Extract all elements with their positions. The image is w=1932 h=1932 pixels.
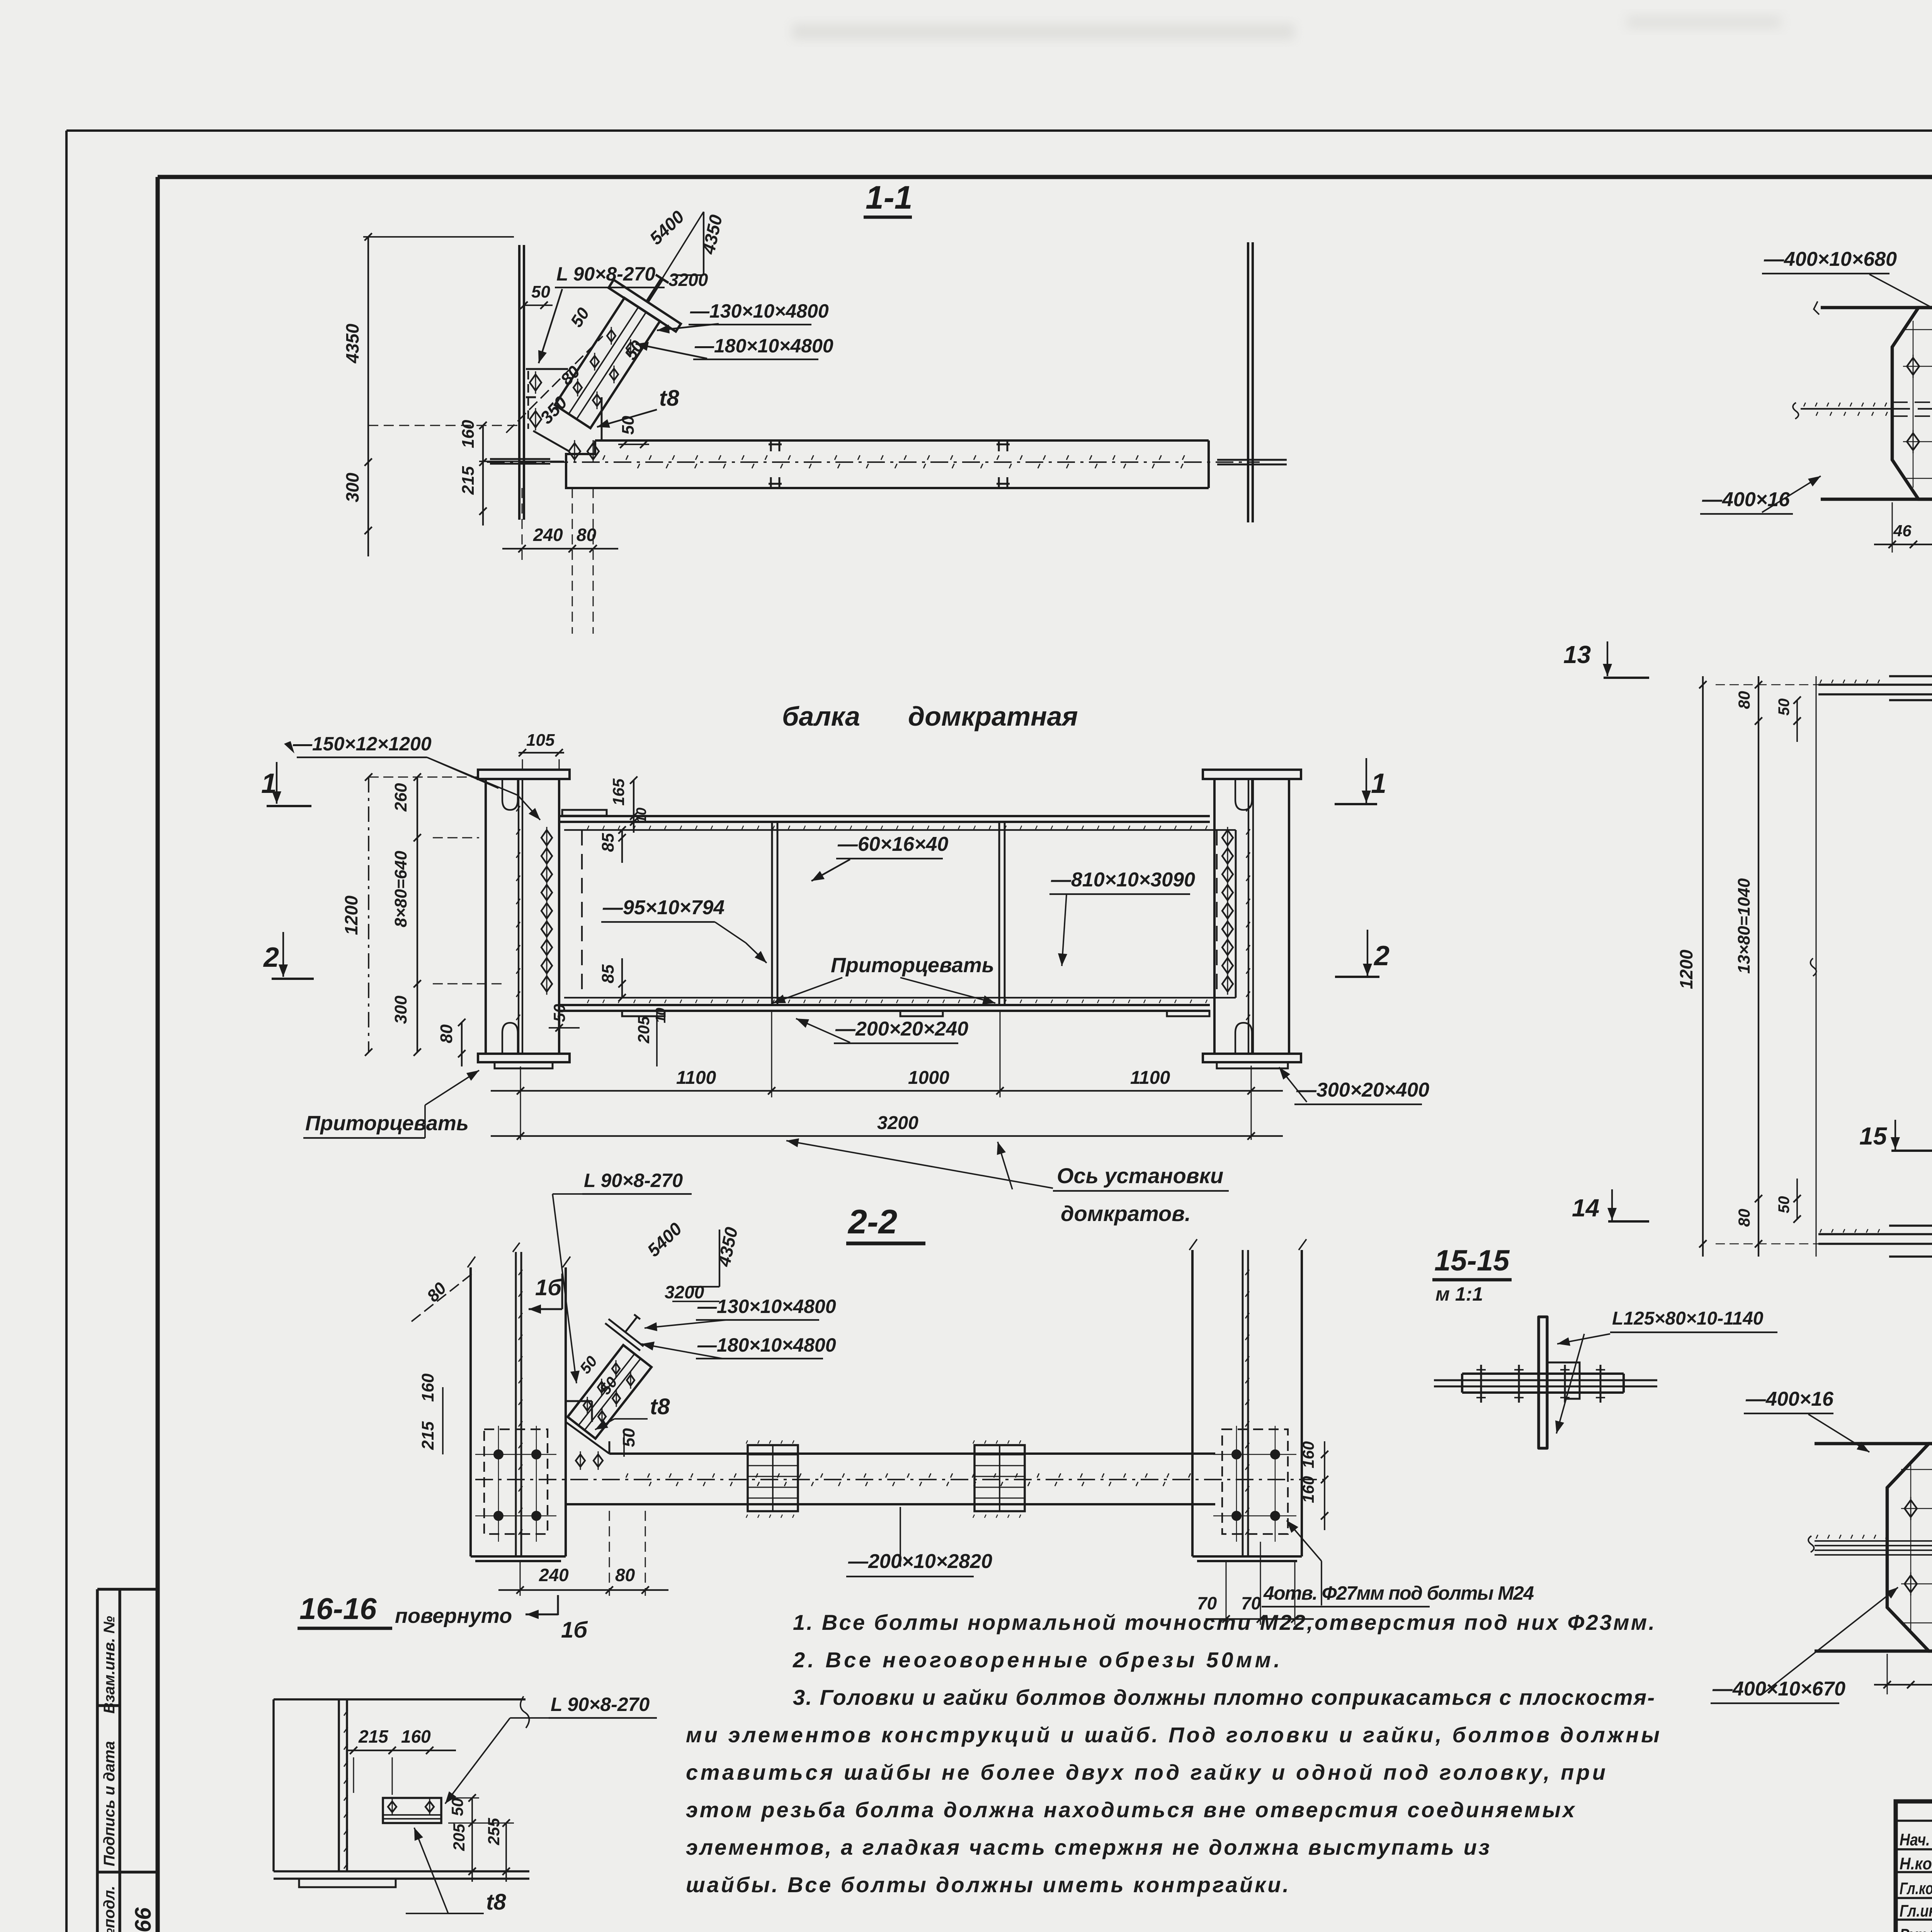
2-2 jack detail — [605, 1304, 655, 1350]
svg-text:ми элементов конструкций и шай: ми элементов конструкций и шайб. Под гол… — [686, 1723, 1660, 1747]
svg-text:3200: 3200 — [668, 270, 708, 290]
16-16 detail — [274, 1699, 529, 1879]
svg-text:205: 205 — [634, 1016, 653, 1044]
beam web panel — [564, 830, 1236, 998]
svg-text:м 1:1: м 1:1 — [1435, 1283, 1483, 1305]
bottom dims of beam view — [520, 1066, 521, 1140]
svg-text:домкратная: домкратная — [908, 701, 1078, 731]
svg-text:балка: балка — [782, 701, 860, 731]
14-14 bottom dims — [1874, 1684, 1932, 1685]
14-14 flange band — [1815, 1444, 1932, 1651]
svg-text:1100: 1100 — [676, 1068, 716, 1088]
svg-text:80: 80 — [1735, 691, 1753, 709]
svg-text:80: 80 — [437, 1024, 456, 1043]
svg-text:50: 50 — [619, 416, 638, 435]
svg-text:Подпись и дата: Подпись и дата — [101, 1741, 118, 1866]
svg-text:50: 50 — [1776, 699, 1793, 716]
svg-text:t8: t8 — [486, 1889, 506, 1915]
svg-text:шайбы. Все болты должны иметь: шайбы. Все болты должны иметь контргайки… — [686, 1872, 1289, 1897]
svg-text:—130×10×4800: —130×10×4800 — [697, 1296, 836, 1317]
svg-text:80: 80 — [577, 525, 597, 545]
svg-text:85: 85 — [599, 833, 617, 852]
svg-text:—400×16: —400×16 — [1745, 1388, 1834, 1410]
svg-text:Рук.бриг.: Рук.бриг. — [1900, 1925, 1932, 1932]
left stamp boxes — [97, 1589, 158, 1932]
svg-text:10: 10 — [653, 1008, 668, 1023]
svg-text:85: 85 — [599, 964, 617, 983]
svg-text:4350: 4350 — [342, 323, 362, 364]
15-15 detail — [1539, 1317, 1547, 1448]
svg-text:Нач. отд.: Нач. отд. — [1900, 1830, 1932, 1849]
svg-text:—180×10×4800: —180×10×4800 — [697, 1334, 836, 1356]
svg-text:1200: 1200 — [341, 895, 361, 935]
svg-text:—200×10×2820: —200×10×2820 — [848, 1550, 992, 1573]
svg-text:15-15: 15-15 — [1434, 1244, 1510, 1277]
title block — [1896, 1801, 1932, 1932]
svg-text:50: 50 — [619, 1428, 638, 1447]
svg-text:L 90×8-270: L 90×8-270 — [551, 1694, 650, 1715]
svg-text:—400×10×680: —400×10×680 — [1764, 248, 1897, 270]
svg-text:13: 13 — [1563, 641, 1591, 668]
svg-text:t8: t8 — [659, 386, 679, 411]
svg-text:165: 165 — [609, 778, 628, 806]
16-16 dims — [347, 1750, 456, 1751]
svg-text:повернуто: повернуто — [395, 1604, 512, 1628]
svg-text:Приторцевать: Приторцевать — [831, 954, 994, 977]
beam flanges — [559, 816, 1210, 822]
14-14 octagon — [1887, 1444, 1932, 1651]
svg-text:Гл.констр: Гл.констр — [1900, 1879, 1932, 1898]
beam stiffeners — [772, 822, 777, 1005]
splice bottom flange — [1889, 1226, 1932, 1257]
svg-text:Н.контр.: Н.контр. — [1900, 1854, 1932, 1873]
svg-text:46: 46 — [1893, 522, 1912, 540]
2-2 right column — [1192, 1250, 1302, 1556]
svg-text:50: 50 — [1776, 1196, 1793, 1214]
svg-text:—180×10×4800: —180×10×4800 — [694, 335, 833, 357]
svg-text:1000: 1000 — [908, 1068, 949, 1088]
svg-text:16-16: 16-16 — [299, 1592, 377, 1626]
svg-text:2-2: 2-2 — [847, 1202, 897, 1241]
svg-text:10: 10 — [633, 808, 649, 823]
svg-text:t8: t8 — [650, 1394, 670, 1419]
1-1 beam axis — [487, 461, 1260, 463]
svg-text:1: 1 — [1371, 768, 1386, 799]
svg-text:160: 160 — [1299, 1441, 1317, 1468]
1-1 beam outline — [566, 440, 1209, 488]
beam end bolts — [541, 830, 552, 845]
svg-text:3. Головки и гайки болтов долж: 3. Головки и гайки болтов должны плотно … — [793, 1685, 1655, 1709]
right column — [1203, 770, 1301, 779]
1-1 gusset — [526, 369, 602, 451]
svg-text:L125×80×10-1140: L125×80×10-1140 — [1612, 1308, 1764, 1329]
svg-text:—60×16×40: —60×16×40 — [837, 833, 948, 855]
splice top flange — [1889, 676, 1932, 700]
svg-text:1-1: 1-1 — [866, 179, 912, 216]
svg-text:8×80=640: 8×80=640 — [391, 850, 410, 927]
13-13 hidden web lines — [1892, 401, 1932, 403]
1-1 left dim chain — [367, 237, 369, 556]
1-1 dim triangle 5400/4350/3200 — [703, 212, 704, 275]
svg-text:—150×12×1200: —150×12×1200 — [293, 733, 432, 755]
svg-text:160: 160 — [401, 1726, 431, 1747]
svg-text:215: 215 — [358, 1726, 389, 1747]
svg-text:14: 14 — [1572, 1194, 1599, 1222]
svg-text:215: 215 — [418, 1421, 437, 1450]
svg-text:160: 160 — [418, 1373, 437, 1402]
svg-text:105: 105 — [526, 731, 555, 750]
13-13 splice plate octagon — [1892, 308, 1932, 499]
svg-text:L 90×8-270: L 90×8-270 — [584, 1170, 683, 1191]
14-14 center web lines — [1815, 1541, 1932, 1555]
svg-text:домкратов.: домкратов. — [1061, 1201, 1191, 1226]
svg-text:1. Все болты нормальной точнос: 1. Все болты нормальной точности М22,отв… — [793, 1610, 1655, 1634]
2-2 gusset & brace — [566, 1422, 609, 1454]
svg-text:205: 205 — [450, 1823, 468, 1851]
svg-text:—300×20×400: —300×20×400 — [1296, 1079, 1429, 1101]
2-2 splice plates — [748, 1445, 798, 1511]
svg-text:160: 160 — [1299, 1476, 1317, 1503]
1-1 left wall — [519, 245, 524, 520]
svg-text:3200: 3200 — [877, 1113, 918, 1133]
svg-text:Инв. №подл.: Инв. №подл. — [101, 1886, 118, 1932]
svg-text:1б: 1б — [535, 1275, 562, 1300]
svg-text:Взам.инв. №: Взам.инв. № — [101, 1616, 118, 1714]
svg-text:361266: 361266 — [131, 1907, 156, 1932]
svg-text:50: 50 — [550, 1004, 568, 1022]
dim 105 top — [519, 752, 564, 753]
2-2 left bolt box — [484, 1429, 548, 1534]
svg-text:Приторцевать: Приторцевать — [305, 1112, 469, 1135]
svg-text:—200×20×240: —200×20×240 — [835, 1018, 968, 1040]
svg-text:215: 215 — [459, 466, 478, 495]
svg-text:1б: 1б — [561, 1617, 588, 1643]
dims 165 etc — [633, 780, 634, 833]
14-14 bolts — [1910, 1461, 1911, 1632]
svg-text:—130×10×4800: —130×10×4800 — [690, 300, 829, 322]
svg-text:50: 50 — [448, 1798, 466, 1816]
svg-text:160: 160 — [459, 420, 478, 448]
2-2 left column — [471, 1267, 566, 1556]
svg-text:2: 2 — [1373, 940, 1389, 971]
dims left of beam view — [368, 777, 369, 1052]
bottom pads — [622, 1011, 665, 1016]
1-1 diagonal brace — [555, 298, 660, 428]
svg-text:—810×10×3090: —810×10×3090 — [1051, 869, 1195, 891]
svg-text:L 90×8-270: L 90×8-270 — [556, 263, 655, 285]
1-1 stiffener marks — [769, 440, 782, 488]
svg-text:255: 255 — [485, 1818, 503, 1845]
svg-text:300: 300 — [391, 995, 410, 1024]
13-13 bolts — [1913, 321, 1913, 488]
svg-text:50: 50 — [531, 282, 550, 301]
2-2 dims bottom — [520, 1561, 521, 1596]
svg-text:1200: 1200 — [1676, 949, 1696, 989]
13-13 flange band — [1821, 308, 1932, 499]
svg-text:4отв. Ф27мм под болты М24: 4отв. Ф27мм под болты М24 — [1263, 1582, 1534, 1604]
left column — [478, 770, 570, 779]
sheet inner frame — [158, 175, 1932, 179]
2-2 beam plan — [566, 1454, 1215, 1504]
svg-text:240: 240 — [539, 1565, 569, 1585]
1-1 bottom dims — [522, 488, 523, 564]
svg-text:Ось установки: Ось установки — [1057, 1163, 1223, 1188]
svg-text:260: 260 — [391, 783, 410, 812]
svg-text:13×80=1040: 13×80=1040 — [1735, 878, 1753, 974]
sheet outer border — [66, 129, 1932, 132]
svg-text:240: 240 — [533, 525, 563, 545]
svg-text:15: 15 — [1859, 1122, 1888, 1150]
svg-text:1100: 1100 — [1130, 1068, 1170, 1088]
svg-text:Гл.инжпр.: Гл.инжпр. — [1900, 1901, 1932, 1920]
svg-text:—400×16: —400×16 — [1702, 488, 1790, 511]
svg-text:—95×10×794: —95×10×794 — [602, 896, 724, 919]
1-1 right wall — [1248, 242, 1253, 522]
splice left dims — [1702, 676, 1704, 1257]
svg-text:80: 80 — [1735, 1209, 1753, 1227]
svg-text:80: 80 — [615, 1565, 635, 1585]
svg-text:300: 300 — [342, 473, 362, 502]
13-13 bottom dims — [1874, 544, 1932, 545]
svg-text:2: 2 — [263, 942, 279, 973]
